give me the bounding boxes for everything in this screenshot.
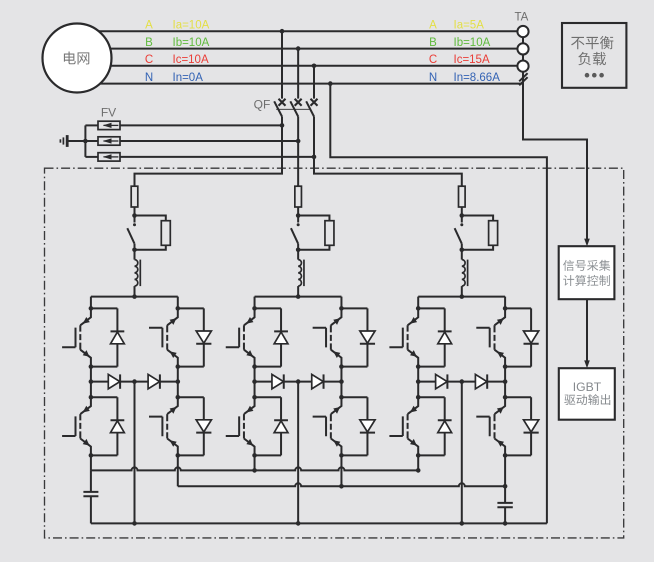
svg-text:QF: QF bbox=[254, 98, 271, 112]
label 驱动输出 (drive output) bbox=[564, 394, 610, 405]
wire right rails drop cell2 bbox=[340, 455, 342, 486]
svg-text:C: C bbox=[429, 54, 437, 66]
svg-text:FV: FV bbox=[101, 106, 116, 120]
diode VD33 bbox=[505, 308, 531, 366]
wire cell 2 left rail mid bbox=[254, 367, 256, 398]
IGBT V32 (lower left) bbox=[389, 397, 418, 455]
node cell 3 RT bbox=[503, 306, 508, 311]
wire cell 3 right rail top bbox=[504, 297, 506, 309]
clamp diode VD25 bbox=[255, 381, 272, 383]
diode VD13 bbox=[178, 308, 204, 366]
diode VD12 bbox=[91, 397, 118, 455]
node cell 1 on neutral bus bbox=[132, 521, 137, 526]
wire cell 2 midpoint drop bbox=[297, 382, 299, 524]
clamp diode VD16 bbox=[120, 381, 148, 383]
IGBT V34 (lower right) bbox=[476, 397, 505, 455]
diode VD24 bbox=[341, 397, 367, 455]
clamp diode VD15 bbox=[91, 381, 108, 383]
node cell 3 on neutral bus bbox=[460, 521, 465, 526]
node tap phase C bbox=[312, 64, 317, 69]
IGBT V22 (lower left) bbox=[226, 397, 255, 455]
IGBT V33 (upper right) bbox=[476, 308, 505, 366]
inductor L1 bbox=[135, 250, 141, 297]
wire cell 1 right rail mid bbox=[177, 367, 179, 398]
node cell 2 right rail bottom bbox=[339, 453, 344, 458]
arrowhead into control box bbox=[584, 239, 590, 247]
diode VD23 bbox=[341, 308, 367, 366]
node cell 2 lower-right top bbox=[339, 395, 344, 400]
label 负载 (load) bbox=[578, 52, 606, 65]
svg-text:A: A bbox=[429, 19, 437, 31]
node cell 2 top bus center bbox=[296, 294, 301, 299]
clamp diode VD26 bbox=[284, 381, 312, 383]
IGBT V14 (lower right) bbox=[149, 397, 178, 455]
resistor R3 (pre-charge bypass) bbox=[462, 216, 498, 250]
wire cell 1 top bus bbox=[91, 296, 178, 298]
wire clamp to right rail 2 bbox=[324, 381, 342, 383]
multi-conductor slash marks bbox=[519, 73, 527, 85]
wire phase B line bbox=[77, 48, 523, 50]
node contactor top 2 bbox=[296, 213, 301, 218]
node cell3 right rail on negative bus bbox=[503, 484, 508, 489]
wire phase A feed to cell 1 bbox=[135, 125, 283, 186]
wire cell 3 midpoint drop bbox=[461, 382, 463, 524]
node cell 1 left clamp bbox=[89, 379, 94, 384]
diode VD22 bbox=[255, 397, 281, 455]
unbalanced load box bbox=[562, 23, 626, 88]
wire left rails drop cell1 bbox=[90, 455, 92, 470]
fuse FU2 bbox=[295, 185, 302, 216]
node cell 2 RT bbox=[339, 306, 344, 311]
wire cell 2 right rail top bbox=[340, 297, 342, 309]
node contactor top 1 bbox=[132, 213, 137, 218]
ground bbox=[60, 135, 85, 147]
IGBT V13 (upper right) bbox=[149, 308, 178, 366]
node cell 1 lower-left top bbox=[89, 395, 94, 400]
svg-text:C: C bbox=[145, 54, 153, 66]
svg-text:B: B bbox=[145, 37, 153, 49]
node cell 3 LT bbox=[416, 306, 421, 311]
surge arrester FV2 bbox=[85, 137, 120, 145]
surge arrester FV1 bbox=[85, 121, 120, 129]
node contactor bottom 3 bbox=[460, 248, 465, 253]
label phase letters right bbox=[429, 19, 500, 83]
wire neutral feed N bbox=[330, 84, 547, 524]
label 不平衡 (unbalanced) bbox=[571, 36, 613, 49]
wire negative DC bus (right rails) with crossover hops bbox=[178, 483, 505, 486]
svg-text:Ib=10A: Ib=10A bbox=[454, 37, 491, 49]
svg-text:In=8.66A: In=8.66A bbox=[454, 72, 501, 84]
converter enclosure dashed border bbox=[45, 168, 624, 538]
IGBT V23 (upper right) bbox=[313, 308, 342, 366]
surge arrester FV3 bbox=[85, 153, 120, 161]
svg-text:Ia=10A: Ia=10A bbox=[173, 19, 210, 31]
svg-text:Ib=10A: Ib=10A bbox=[173, 37, 210, 49]
contactor switch KM3 bbox=[455, 216, 464, 250]
label dots ••• bbox=[585, 73, 604, 78]
wire cell 1 left rail mid bbox=[90, 367, 92, 398]
node cell 1 right rail bottom bbox=[176, 453, 181, 458]
wire cell 1 right rail top bbox=[177, 297, 179, 309]
diode VD31 bbox=[418, 308, 445, 366]
node cell 2 on neutral bus bbox=[296, 521, 301, 526]
wire right rails drop cell1 bbox=[177, 455, 179, 486]
wire TA secondary to controller bbox=[523, 26, 587, 240]
label 计算控制 (computing control) bbox=[563, 275, 610, 286]
node cell 1 neutral point bbox=[132, 379, 137, 384]
IGBT V31 (upper left) bbox=[389, 308, 418, 366]
current transformer TA-a bbox=[517, 26, 528, 37]
clamp diode VD35 bbox=[418, 381, 435, 383]
node cell 1 lower-right top bbox=[176, 395, 181, 400]
node contactor bottom 2 bbox=[296, 248, 301, 253]
node contactor bottom 1 bbox=[132, 248, 137, 253]
wire arrester row 2 to breaker bbox=[120, 140, 298, 142]
contactor switch KM2 bbox=[291, 216, 300, 250]
node ground junction bbox=[83, 139, 88, 144]
diode VD14 bbox=[178, 397, 204, 455]
current transformer TA-c bbox=[517, 61, 528, 72]
node cell 3 left rail bottom bbox=[416, 453, 421, 458]
clamp diode VD36 bbox=[447, 381, 475, 383]
resistor R2 (pre-charge bypass) bbox=[298, 216, 334, 250]
node cell 3 lower-right top bbox=[503, 395, 508, 400]
diode VD34 bbox=[505, 397, 531, 455]
wire cell 1 midpoint drop bbox=[134, 382, 136, 524]
svg-text:Ic=15A: Ic=15A bbox=[454, 54, 490, 66]
node cell 3 right rail bottom bbox=[503, 453, 508, 458]
node cell 1 left rail bottom bbox=[89, 453, 94, 458]
arrow control to driver bbox=[586, 299, 588, 361]
capacitor C1 bbox=[83, 470, 98, 523]
node cell 2 left rail bottom bbox=[252, 453, 257, 458]
node cell 3 top bus center bbox=[460, 294, 465, 299]
contactor switch KM1 bbox=[127, 216, 136, 250]
node cell 3 RB bbox=[503, 364, 508, 369]
svg-text:Ia=5A: Ia=5A bbox=[454, 19, 485, 31]
wire neutral DC bus bbox=[91, 522, 547, 524]
AC source 电网 circle bbox=[43, 24, 112, 93]
IGBT V24 (lower right) bbox=[313, 397, 342, 455]
inductor L3 bbox=[462, 250, 468, 297]
control box: signal acquisition bbox=[559, 246, 615, 299]
wire cell 3 left rail top bbox=[417, 297, 419, 309]
node cell 3 right clamp bbox=[503, 379, 508, 384]
node cell 3 LB bbox=[416, 364, 421, 369]
node tap phase A bbox=[280, 29, 285, 34]
node cell 1 LB bbox=[89, 364, 94, 369]
IGBT V21 (upper left) bbox=[226, 308, 255, 366]
wire phase A line bbox=[77, 30, 523, 32]
wire arrester row 3 to breaker bbox=[120, 156, 314, 158]
wire cell 3 top bus bbox=[418, 296, 505, 298]
diode VD21 bbox=[255, 308, 281, 366]
svg-text:TA: TA bbox=[514, 12, 528, 24]
fuse FU1 bbox=[131, 185, 138, 216]
wire cell 3 left rail mid bbox=[417, 367, 419, 398]
diode VD32 bbox=[418, 397, 445, 455]
wire arrester row 1 to breaker bbox=[120, 124, 282, 126]
svg-text:In=0A: In=0A bbox=[173, 72, 204, 84]
wire cell 3 right rail mid bbox=[504, 367, 506, 398]
svg-text:B: B bbox=[429, 37, 437, 49]
capacitor C2 bbox=[497, 486, 512, 523]
wire cell 1 left rail top bbox=[90, 297, 92, 309]
node cell 2 lower-left top bbox=[252, 395, 257, 400]
breaker linkage bar bbox=[276, 108, 310, 110]
label phase letters left bbox=[145, 19, 210, 83]
wire left rails drop cell2 bbox=[254, 455, 256, 470]
node cell 3 neutral point bbox=[460, 379, 465, 384]
node breaker-arrester junction A bbox=[280, 123, 285, 128]
wire phase C feed to cell 3 bbox=[314, 157, 462, 186]
wire left rails drop cell3 bbox=[417, 455, 419, 470]
node cell 2 neutral point bbox=[296, 379, 301, 384]
label 信号采集 (signal acquisition) bbox=[563, 260, 610, 271]
circuit breaker QF pole C bbox=[306, 66, 317, 157]
node cell 1 right clamp bbox=[176, 379, 181, 384]
node breaker-arrester junction C bbox=[312, 155, 317, 160]
node cell 2 left clamp bbox=[252, 379, 257, 384]
node tap phase B bbox=[296, 46, 301, 51]
node cell 1 RT bbox=[176, 306, 181, 311]
node cell 3 lower-left top bbox=[416, 395, 421, 400]
wire phase B feed to cell 2 bbox=[297, 141, 299, 186]
wire cell 2 left rail top bbox=[254, 297, 256, 309]
svg-text:N: N bbox=[429, 72, 437, 84]
node cell 1 top bus center bbox=[132, 294, 137, 299]
node breaker-arrester junction B bbox=[296, 139, 301, 144]
wire clamp to right rail 1 bbox=[160, 381, 178, 383]
IGBT V11 (upper left) bbox=[62, 308, 91, 366]
wire clamp to right rail 3 bbox=[487, 381, 505, 383]
node contactor top 3 bbox=[460, 213, 465, 218]
resistor R1 (pre-charge bypass) bbox=[135, 216, 171, 250]
node cell 2 RB bbox=[339, 364, 344, 369]
diode VD11 bbox=[91, 308, 118, 366]
svg-text:N: N bbox=[145, 72, 153, 84]
node cell 3 left clamp bbox=[416, 379, 421, 384]
node neutral tap bbox=[328, 81, 333, 86]
circuit breaker QF pole A bbox=[274, 31, 285, 125]
wire cell 2 top bus bbox=[255, 296, 342, 298]
wire arrester bus bbox=[84, 125, 86, 156]
wire phase N line bbox=[77, 83, 523, 85]
node cell 1 LT bbox=[89, 306, 94, 311]
driver box: IGBT drive output bbox=[559, 368, 615, 420]
node cell 2 right clamp bbox=[339, 379, 344, 384]
IGBT V12 (lower left) bbox=[62, 397, 91, 455]
svg-text:A: A bbox=[145, 19, 153, 31]
wire positive DC bus (left rails) with crossover hops bbox=[91, 467, 418, 470]
svg-text:Ic=10A: Ic=10A bbox=[173, 54, 209, 66]
wire right rails drop cell3 bbox=[504, 455, 506, 486]
node cell 1 RB bbox=[176, 364, 181, 369]
wire phase C line bbox=[77, 65, 523, 67]
inductor L2 bbox=[298, 250, 304, 297]
wire cell 2 right rail mid bbox=[340, 367, 342, 398]
fuse FU3 bbox=[459, 185, 466, 216]
node C2 on neutral bus bbox=[503, 521, 508, 526]
node cell 2 LB bbox=[252, 364, 257, 369]
current transformer TA-b bbox=[517, 43, 528, 54]
svg-text:IGBT: IGBT bbox=[573, 380, 602, 394]
circuit breaker QF pole B bbox=[290, 49, 301, 141]
node cell 2 LT bbox=[252, 306, 257, 311]
label 电网 (power grid) bbox=[64, 52, 89, 65]
